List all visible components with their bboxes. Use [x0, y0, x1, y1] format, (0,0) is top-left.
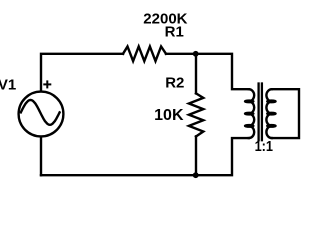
- primary curl 1: [245, 101, 253, 103]
- node junction dot bottom: [193, 172, 199, 178]
- transformer T1 secondary coil: [266, 89, 271, 138]
- transformer core line right: [261, 84, 263, 141]
- wire top-left: V1 top to R1: [41, 54, 123, 91]
- wire R2 bottom stub: [195, 136, 197, 175]
- node junction dot top: [193, 51, 199, 57]
- transformer core line left: [257, 84, 259, 141]
- wire R2 top stub: [195, 54, 197, 94]
- resistor R2: [189, 93, 203, 136]
- transformer T1 primary coil: [249, 89, 254, 138]
- secondary curl 3: [267, 125, 275, 127]
- wire secondary loop: [272, 89, 299, 138]
- resistor R1: [123, 47, 166, 62]
- voltage source V1 circle: [19, 92, 64, 137]
- svg-text:10K: 10K: [154, 107, 184, 124]
- svg-text:R2: R2: [165, 74, 184, 91]
- primary curl 3: [245, 125, 253, 127]
- V1 sine wave: [21, 100, 60, 125]
- svg-text:1:1: 1:1: [255, 137, 274, 154]
- primary curl 2: [245, 113, 253, 115]
- wire V1 bottom stub: [40, 137, 42, 175]
- wire top-right: R1 to transformer corner: [166, 54, 249, 89]
- secondary curl 2: [267, 113, 275, 115]
- V1 plus sign: [43, 80, 51, 88]
- svg-text:R1: R1: [165, 24, 184, 41]
- wire bottom rail: [41, 138, 249, 175]
- secondary curl 1: [267, 101, 275, 103]
- svg-text:V1: V1: [0, 77, 16, 94]
